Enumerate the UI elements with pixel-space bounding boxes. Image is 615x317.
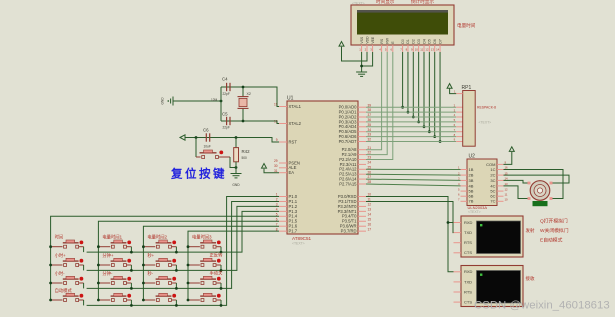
wire U2 3C to motor xyxy=(504,180,528,183)
U1 pin 21 P2.0/A8 xyxy=(342,146,372,152)
U1 pin 39 P0.0/AD0 xyxy=(339,103,372,109)
junction row3 drop col4 xyxy=(220,287,223,290)
svg-text:X2: X2 xyxy=(247,92,251,96)
junction D5/P0.5 xyxy=(428,130,431,133)
svg-text:22: 22 xyxy=(368,151,372,155)
LCD pin 10 D3 xyxy=(415,39,421,52)
wire LCD D7 to P0.7 xyxy=(439,52,441,142)
VT1 pin TXD xyxy=(454,230,473,235)
svg-text:12: 12 xyxy=(368,203,372,207)
U1 pin 15 P3.5/T1 xyxy=(342,217,371,223)
wire LCD RW to MCU xyxy=(366,52,387,155)
svg-text:VSS: VSS xyxy=(360,36,364,44)
virtual terminal VT2 body xyxy=(461,266,523,307)
svg-text:13: 13 xyxy=(431,48,435,52)
wire P0.4 bus xyxy=(366,126,456,128)
wire P2.7 to U2 4B xyxy=(366,184,461,186)
svg-text:电量时间: 电量时间 xyxy=(457,22,476,29)
U1 pin 30 ALE xyxy=(274,164,297,170)
wire LCD D2 to P0.2 xyxy=(412,52,414,117)
junction column3 row1 xyxy=(142,245,145,248)
U1 pin 25 P2.4/A12 xyxy=(339,165,371,171)
svg-text:RXD: RXD xyxy=(464,269,473,274)
wire U2 1C to motor xyxy=(504,170,564,199)
junction column4 row4 xyxy=(187,299,190,302)
push button keypad row1 col1 xyxy=(51,234,84,248)
svg-text:TXD: TXD xyxy=(464,230,472,235)
junction row2 drop col2 xyxy=(130,269,133,272)
wire button right to ground xyxy=(230,157,236,168)
junction row1 drop col2 xyxy=(130,251,133,254)
push button keypad row2 col1 xyxy=(51,252,84,266)
svg-text:D5: D5 xyxy=(428,39,432,43)
U2 pin 3 3B xyxy=(458,177,474,183)
svg-text:21: 21 xyxy=(368,146,372,150)
svg-text:GND: GND xyxy=(161,97,165,105)
wire P0.5 bus xyxy=(366,131,456,133)
power symbol at EA xyxy=(262,164,267,169)
RP1 pin 2 stub xyxy=(456,106,463,108)
push button keypad row1 col4 xyxy=(188,234,221,248)
ground symbol below R42 xyxy=(231,174,242,188)
LCD pin 8 D1 xyxy=(406,39,411,52)
push button keypad row1 col3 xyxy=(143,234,176,248)
svg-text:D4: D4 xyxy=(422,39,426,43)
junction row2 drop col3 xyxy=(175,269,178,272)
svg-text:10uF: 10uF xyxy=(204,145,211,149)
push button keypad row2 col2 xyxy=(98,252,131,266)
svg-text:23: 23 xyxy=(368,156,372,160)
U2 pin 9 COM xyxy=(486,161,506,167)
wire button row2 col3 drop xyxy=(175,265,177,270)
svg-text:13: 13 xyxy=(368,207,372,211)
RP1 pin 1 stub xyxy=(456,93,463,95)
svg-text:25: 25 xyxy=(368,165,372,169)
svg-text:500: 500 xyxy=(242,156,248,160)
svg-text:12: 12 xyxy=(425,48,429,52)
svg-text:分钟+: 分钟+ xyxy=(102,252,114,259)
U1 pin 7 P1.6 xyxy=(276,222,298,228)
junction column3 row2 xyxy=(142,264,145,267)
wire branch to VT1 RXD xyxy=(448,222,454,224)
svg-text:36: 36 xyxy=(368,118,372,122)
svg-text:22pF: 22pF xyxy=(223,92,230,96)
wire LCD VEE to VSS node xyxy=(362,52,373,66)
push button keypad row1 col2 xyxy=(98,234,131,248)
wire reset rail xyxy=(189,138,279,143)
svg-text:P3.7/RD: P3.7/RD xyxy=(341,229,357,234)
svg-text:<TEXT>: <TEXT> xyxy=(479,121,492,125)
svg-text:正反转: 正反转 xyxy=(210,252,224,259)
junction D4/P0.4 xyxy=(423,125,426,128)
crystal X2 xyxy=(211,87,251,121)
VT2 pin CTS xyxy=(454,300,473,305)
svg-text:自动模式: 自动模式 xyxy=(55,287,73,294)
wire LCD D5 to P0.5 xyxy=(428,52,430,132)
U1 pin 3 P1.2 xyxy=(276,203,298,209)
svg-text:22pF: 22pF xyxy=(223,126,230,130)
wire XTAL1 top rail xyxy=(221,87,279,107)
junction row4 drop col3 xyxy=(175,304,178,307)
wire button row2 col2 drop xyxy=(130,265,132,270)
svg-text:RXD: RXD xyxy=(464,220,473,225)
svg-text:发射: 发射 xyxy=(526,227,535,234)
push button keypad row3 col3 xyxy=(143,270,176,284)
motor speed indicator xyxy=(533,201,548,206)
svg-text:24: 24 xyxy=(368,161,372,165)
VT1 pin CTS xyxy=(454,250,473,255)
LCD pin 12 D5 xyxy=(425,39,431,52)
svg-text:RST: RST xyxy=(289,139,298,144)
junction D2/P0.2 xyxy=(412,116,415,119)
wire power to RP1 pin1 xyxy=(450,88,457,93)
svg-text:2C: 2C xyxy=(490,173,495,178)
svg-text:D7: D7 xyxy=(438,39,442,43)
svg-text:34: 34 xyxy=(368,128,372,132)
svg-text:电量时间2: 电量时间2 xyxy=(147,234,167,241)
svg-text:30: 30 xyxy=(274,164,278,168)
svg-text:VEE: VEE xyxy=(371,36,375,44)
wire LCD D4 to P0.4 xyxy=(423,52,425,127)
svg-text:RP1: RP1 xyxy=(462,85,472,91)
wire button row4 col1 drop xyxy=(83,300,85,305)
svg-text:39: 39 xyxy=(368,103,372,107)
wire P1.5 to keypad column 2 xyxy=(98,221,279,300)
svg-text:C6: C6 xyxy=(203,128,209,133)
push button keypad row3 col2 xyxy=(98,270,131,284)
U1 pin 22 P2.1/A9 xyxy=(342,151,372,157)
U2 pin 13 4C xyxy=(490,182,508,188)
wire P2.4 to U2 1B xyxy=(366,168,461,170)
wire button row3 col4 drop xyxy=(220,283,222,288)
capacitor C6 xyxy=(203,128,211,149)
LCD pin 3 VEE xyxy=(370,36,375,52)
svg-text:1C: 1C xyxy=(490,167,495,172)
wire LCD E to MCU xyxy=(366,52,393,160)
svg-text:11: 11 xyxy=(420,48,423,52)
wire button left drop xyxy=(195,138,197,158)
junction column4 row3 xyxy=(187,282,190,285)
wire P1.4 to keypad column 1 xyxy=(51,216,279,300)
U1 pin 23 P2.2/A10 xyxy=(339,156,371,162)
svg-text:RW: RW xyxy=(386,37,390,43)
junction column1 row1 xyxy=(49,245,52,248)
LCD pin 1 VSS xyxy=(359,36,364,52)
LCD pin 7 D0 xyxy=(400,39,405,52)
svg-text:秒-: 秒- xyxy=(147,270,153,277)
svg-text:P2.7/A15: P2.7/A15 xyxy=(339,181,357,186)
svg-text:12M: 12M xyxy=(211,98,218,102)
U1 pin 9 RST xyxy=(276,138,298,144)
svg-text:R42: R42 xyxy=(242,149,251,154)
U2 pin 2 2B xyxy=(458,171,474,177)
U1 pin 6 P1.5 xyxy=(276,217,298,223)
LCD pin 5 RW xyxy=(385,37,390,52)
junction D1/P0.1 xyxy=(407,111,410,114)
power symbol at U2 COM xyxy=(509,147,514,152)
svg-text:5: 5 xyxy=(276,212,278,216)
push button keypad row3 col4 xyxy=(188,270,223,285)
junction caps common xyxy=(220,100,223,103)
svg-text:AT89C51: AT89C51 xyxy=(292,236,312,241)
wire button row3 col3 drop xyxy=(175,283,177,288)
svg-text:RTS: RTS xyxy=(464,289,472,294)
U1 pin 12 P3.2/INT0 xyxy=(338,203,372,209)
svg-text:E自动模式: E自动模式 xyxy=(540,236,563,243)
wire button row1 col1 drop xyxy=(83,247,85,252)
svg-text:D2: D2 xyxy=(412,39,416,43)
junction row3 drop col3 xyxy=(175,287,178,290)
U1 pin 35 P0.4/AD4 xyxy=(339,123,372,129)
junction VT1 RXD xyxy=(447,221,450,224)
svg-text:CTS: CTS xyxy=(464,300,472,305)
wire XTAL2 bottom rail xyxy=(221,121,279,124)
push button keypad row4 col3 xyxy=(143,293,176,301)
resistor R42 xyxy=(234,138,250,174)
LCD title text (clipped at top) xyxy=(376,0,434,5)
junction reset/button xyxy=(195,136,198,139)
wire P0.1 bus xyxy=(366,111,456,113)
RP1 pin 8 stub xyxy=(456,136,463,138)
wire LCD D1 to P0.1 xyxy=(407,52,409,112)
svg-text:16: 16 xyxy=(368,222,372,226)
wire P2.5 to U2 2B xyxy=(366,173,461,176)
svg-text:4: 4 xyxy=(276,207,278,211)
svg-text:D1: D1 xyxy=(406,39,410,43)
wire P1.6 to keypad column 3 xyxy=(143,226,279,300)
svg-text:小时-: 小时- xyxy=(55,270,66,277)
U1 pin 36 P0.3/AD3 xyxy=(339,118,372,124)
svg-text:CTS: CTS xyxy=(464,250,472,255)
junction row1 drop col4 xyxy=(220,251,223,254)
LCD pin 9 D2 xyxy=(411,39,416,52)
wire button row1 col4 drop xyxy=(220,247,222,252)
junction crystal top xyxy=(242,86,245,89)
wire P1.7 to keypad column 4 xyxy=(188,231,279,300)
U1 pin 13 P3.3/INT1 xyxy=(338,207,372,213)
junction crystal bottom xyxy=(242,120,245,123)
wire P1.3 to keypad row 1 xyxy=(87,211,279,252)
svg-text:P0.7/AD7: P0.7/AD7 xyxy=(339,139,358,144)
svg-text:7C: 7C xyxy=(490,199,495,204)
U1 pin 10 P3.0/RXD xyxy=(338,193,371,199)
svg-text:D3: D3 xyxy=(417,39,421,43)
U2 pin 4 4B xyxy=(458,182,474,188)
svg-text:分钟-: 分钟- xyxy=(102,270,113,277)
junction row3 drop col2 xyxy=(130,287,133,290)
wire power to LCD VDD xyxy=(342,47,368,61)
LCD pin 13 D6 xyxy=(431,39,437,52)
U1 pin 24 P2.3/A11 xyxy=(340,161,372,167)
VT1 pin RTS xyxy=(454,240,473,245)
svg-text:11: 11 xyxy=(368,198,372,202)
push button keypad row2 col4 xyxy=(188,252,223,267)
svg-text:CSDN @weixin_46018613: CSDN @weixin_46018613 xyxy=(474,300,610,312)
U2 pin 14 3C xyxy=(490,177,508,183)
svg-text:U2: U2 xyxy=(469,154,476,160)
svg-text:秒+: 秒+ xyxy=(147,252,154,259)
wire P1.0 to keypad row 4 xyxy=(87,197,279,306)
svg-text:复位按键: 复位按键 xyxy=(170,167,227,181)
svg-text:电量时间1: 电量时间1 xyxy=(102,234,122,241)
U1 pin 1 P1.0 xyxy=(276,193,298,199)
junction D0/P0.0 xyxy=(401,106,404,109)
microcontroller U1 AT89C51 body xyxy=(287,101,358,234)
push button keypad row4 col2 xyxy=(98,293,131,301)
wire LCD D3 to P0.3 xyxy=(418,52,420,122)
svg-text:接收: 接收 xyxy=(526,275,535,282)
svg-text:17: 17 xyxy=(368,227,372,231)
U2 pin 1 1B xyxy=(458,166,474,172)
wire P0.2 bus xyxy=(366,116,456,118)
push button keypad row4 col1 xyxy=(51,287,84,301)
LCD pin 4 RS xyxy=(379,38,384,52)
U2 pin 12 5C xyxy=(490,187,508,193)
svg-text:12: 12 xyxy=(505,187,509,191)
power symbol at RP1 xyxy=(447,84,452,89)
junction column3 row3 xyxy=(142,282,145,285)
junction column1 row3 xyxy=(49,282,52,285)
junction row4 drop col4 xyxy=(220,304,223,307)
svg-text:33: 33 xyxy=(368,133,372,137)
virtual terminal VT1 body xyxy=(461,216,523,257)
svg-text:VDD: VDD xyxy=(365,36,369,44)
svg-text:11: 11 xyxy=(505,192,508,196)
U1 pin 5 P1.4 xyxy=(276,212,298,218)
wire P3.1 to VT1 TXD xyxy=(366,202,454,233)
svg-text:14: 14 xyxy=(368,212,372,216)
wire P0.3 bus xyxy=(366,121,456,123)
svg-text:RS: RS xyxy=(380,38,384,43)
RP1 pin 5 stub xyxy=(456,121,463,123)
wire ground rail to caps xyxy=(173,100,221,102)
svg-text:RTS: RTS xyxy=(464,240,472,245)
wire P0.6 bus xyxy=(366,136,456,138)
svg-text:W关闭模拟门: W关闭模拟门 xyxy=(540,227,569,234)
wire power to EA xyxy=(264,169,279,173)
svg-text:14: 14 xyxy=(436,48,440,52)
svg-text:27: 27 xyxy=(368,175,372,179)
svg-text:10: 10 xyxy=(505,198,509,202)
push button keypad row2 col3 xyxy=(143,252,176,266)
wire LCD D0 to P0.0 xyxy=(402,52,404,107)
U1 pin 17 P3.7/RD xyxy=(341,227,372,233)
push button keypad row4 col4 xyxy=(188,293,221,301)
wire button row3 col2 drop xyxy=(130,283,132,288)
svg-text:29: 29 xyxy=(274,159,278,163)
svg-text:1B: 1B xyxy=(469,167,474,172)
RP1 pin 7 stub xyxy=(456,131,463,133)
wire button row2 col4 drop xyxy=(220,265,222,270)
junction column1 row2 xyxy=(49,264,52,267)
wire P0.7 bus xyxy=(366,141,456,143)
U1 pin 11 P3.1/TXD xyxy=(338,198,371,204)
wire LCD RS to MCU xyxy=(366,52,382,150)
svg-text:XTAL2: XTAL2 xyxy=(289,121,302,126)
U2 pin 16 1C xyxy=(490,166,508,172)
U1 pin 8 P1.7 xyxy=(276,227,298,233)
junction row2 drop col4 xyxy=(220,269,223,272)
U2 pin 10 7C xyxy=(490,198,508,204)
LCD pin 14 D7 xyxy=(436,39,442,52)
U2 pin 6 6B xyxy=(458,192,474,198)
RP1 pin 9 stub xyxy=(456,141,463,143)
VT2 pin TXD xyxy=(454,279,473,284)
svg-text:35: 35 xyxy=(368,123,372,127)
junction column1 row4 xyxy=(49,299,52,302)
svg-text:手动关: 手动关 xyxy=(210,270,224,277)
junction column2 row4 xyxy=(97,299,100,302)
power symbol left of C6 xyxy=(180,135,189,140)
VT1 pin RXD xyxy=(454,220,473,225)
svg-text:32: 32 xyxy=(368,138,372,142)
resistor pack RP1 body xyxy=(463,91,476,147)
junction column4 row2 xyxy=(187,264,190,267)
wire LCD VSS to ground xyxy=(361,52,363,72)
U1 pin 34 P0.5/AD5 xyxy=(339,128,372,134)
U1 pin 19 XTAL1 xyxy=(274,103,302,109)
svg-text:38: 38 xyxy=(368,108,372,112)
wire button row4 col4 drop xyxy=(220,300,222,305)
junction D3/P0.3 xyxy=(417,121,420,124)
wire button row2 col1 drop xyxy=(83,265,85,270)
U1 pin 27 P2.6/A14 xyxy=(339,175,371,181)
VT2 pin RXD xyxy=(454,269,473,274)
wire P3.0 to VT2 RXD xyxy=(366,197,454,272)
svg-text:<TEXT>: <TEXT> xyxy=(352,2,365,6)
svg-text:Q打开模拟门: Q打开模拟门 xyxy=(540,217,568,224)
U1 pin 26 P2.5/A13 xyxy=(339,170,371,176)
junction row1 drop col3 xyxy=(175,251,178,254)
svg-text:D0: D0 xyxy=(401,39,405,43)
RP1 pin 3 stub xyxy=(456,111,463,113)
svg-text:时间: 时间 xyxy=(55,234,64,241)
svg-text:TXD: TXD xyxy=(464,279,472,284)
capacitor C4 xyxy=(222,77,230,97)
U1 pin 37 P0.2/AD2 xyxy=(339,113,372,119)
ground symbol left of crystal xyxy=(161,97,174,106)
svg-text:3C: 3C xyxy=(490,178,495,183)
junction reset/R42 xyxy=(235,136,238,139)
U1 pin 32 P0.7/AD7 xyxy=(339,138,372,144)
svg-text:37: 37 xyxy=(368,113,372,117)
wire U2 2C to motor xyxy=(504,175,570,183)
U2 pin 7 7B xyxy=(458,198,474,204)
wire button row1 col2 drop xyxy=(130,247,132,252)
stepper motor M1 xyxy=(528,181,553,201)
svg-text:15: 15 xyxy=(368,217,372,221)
svg-text:10: 10 xyxy=(415,48,419,52)
reset push button xyxy=(196,150,230,158)
svg-text:XTAL1: XTAL1 xyxy=(289,104,302,109)
U2 pin 11 6C xyxy=(490,192,507,198)
svg-text:EA: EA xyxy=(289,170,295,175)
RP1 pin 4 stub xyxy=(456,116,463,118)
U1 pin 18 XTAL2 xyxy=(274,120,302,126)
U1 pin 29 PSEN xyxy=(274,159,300,165)
wire LCD D6 to P0.6 xyxy=(434,52,436,137)
ground symbol below LCD xyxy=(356,72,367,76)
LCD pin 11 D4 xyxy=(420,39,426,52)
svg-text:C4: C4 xyxy=(222,77,228,82)
U1 pin 28 P2.7/A15 xyxy=(339,180,371,186)
U2 pin 15 2C xyxy=(490,171,508,177)
U2 pin 5 5B xyxy=(458,187,474,193)
U1 pin 33 P0.6/AD6 xyxy=(339,133,372,139)
U1 pin 16 P3.6/WR xyxy=(340,222,372,228)
wire P1.1 to keypad row 3 xyxy=(87,201,279,288)
svg-text:3B: 3B xyxy=(469,178,474,183)
